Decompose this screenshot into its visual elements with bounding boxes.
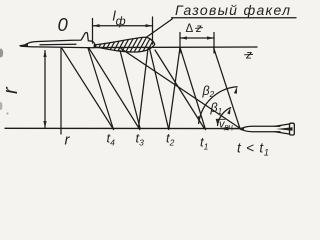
missile velocity vector v_rc (arrow pointing left) (220, 127, 238, 131)
sight line vertical from O to foot r (60, 48, 62, 134)
svg-text:0: 0 (58, 14, 69, 35)
angle beta2 arc with arrowheads (198, 87, 237, 124)
svg-text:z: z (195, 23, 202, 35)
sight line to t1 (from flare tip, steep) (155, 50, 204, 128)
sight line to t3 (89, 48, 140, 129)
missile flight path (bottom line) (5, 127, 240, 129)
dimension l_f (flare length) with extension lines and arrows (93, 17, 153, 44)
z axis (aircraft flight path) (94, 46, 258, 49)
dimension delta-z with extension lines and arrows (180, 33, 214, 54)
svg-text:Газовый факел: Газовый факел (175, 2, 291, 18)
label v_rc with overbar (219, 119, 234, 132)
dimension r (vertical range line with two arrowheads) (43, 50, 46, 128)
scan edge artifacts (0, 49, 8, 115)
sight line to t4 (second) (88, 48, 113, 128)
label delta-z (186, 23, 203, 35)
sight line O to t4 (62, 48, 114, 129)
sight line to missile nose (from delta-z right) (214, 47, 241, 128)
missile silhouette (240, 123, 294, 135)
sight line to missile nose (from flare, current) (121, 49, 241, 129)
sight line to t1 (from delta-z left) (180, 47, 206, 129)
svg-text:Δ: Δ (186, 23, 194, 35)
sight line to t3 (from flare tip, leaning left) (139, 49, 149, 128)
sight line to t2 (from flare tip) (150, 48, 169, 129)
gas flare plume (hatched) (90, 36, 164, 56)
angle beta1 arc with arrowheads (216, 108, 231, 126)
sight line to t3 (from flare underside) (120, 51, 140, 129)
sight line to t2 (from delta-z left, leaning left) (169, 47, 180, 128)
leader line to flare (146, 19, 173, 38)
aircraft target silhouette at point O (20, 32, 96, 47)
caption underline (172, 17, 297, 19)
